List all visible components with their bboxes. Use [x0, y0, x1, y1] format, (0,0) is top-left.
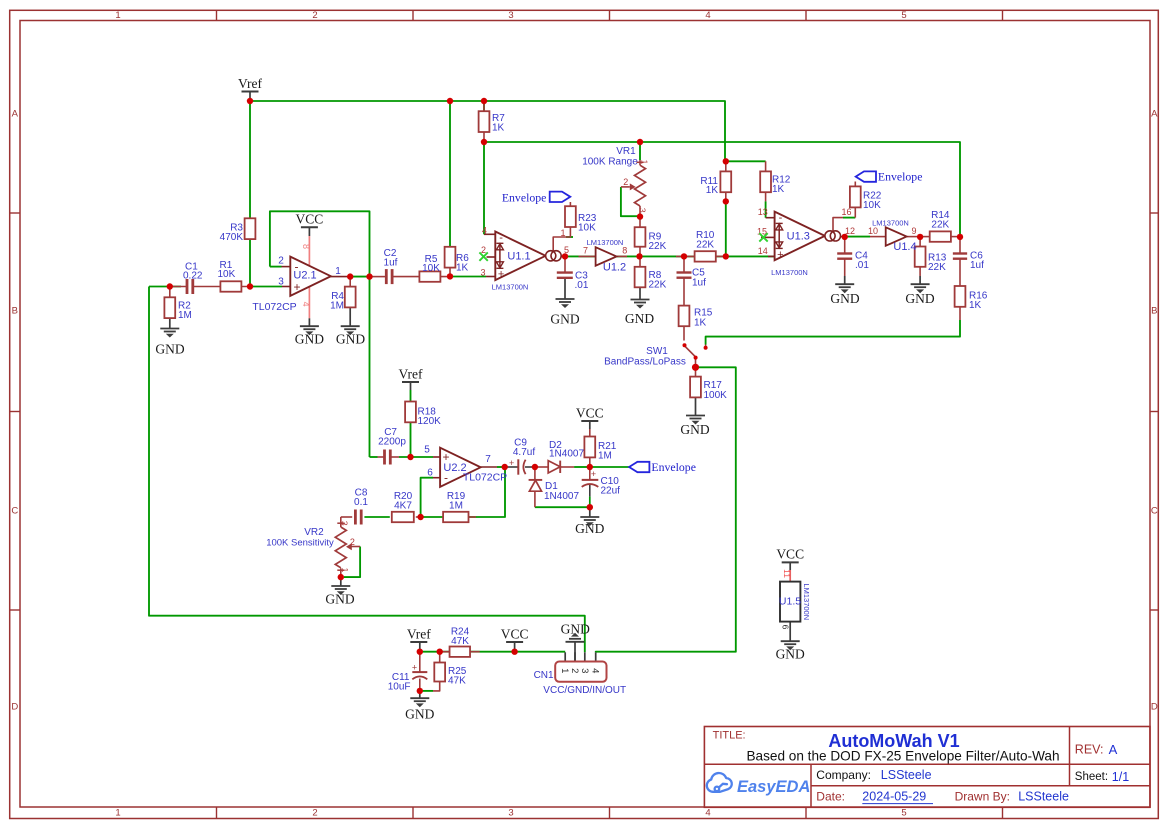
svg-text:Vref: Vref [399, 366, 423, 381]
svg-text:10K: 10K [422, 263, 440, 274]
svg-text:9: 9 [911, 226, 916, 236]
svg-text:2: 2 [481, 245, 486, 255]
svg-text:22K: 22K [696, 239, 714, 250]
svg-text:22K: 22K [928, 262, 946, 273]
svg-text:VCC: VCC [776, 547, 804, 562]
svg-text:1: 1 [335, 266, 341, 277]
svg-text:GND: GND [830, 291, 859, 306]
svg-text:5: 5 [424, 445, 430, 456]
svg-text:10: 10 [868, 226, 878, 236]
svg-text:2: 2 [278, 256, 284, 267]
svg-text:8: 8 [301, 244, 311, 249]
svg-text:GND: GND [295, 332, 324, 347]
svg-text:3: 3 [508, 10, 513, 21]
svg-text:GND: GND [680, 422, 709, 437]
svg-text:22K: 22K [649, 280, 667, 291]
svg-text:2: 2 [312, 10, 317, 21]
svg-text:CN1: CN1 [534, 670, 554, 681]
svg-text:2: 2 [569, 668, 580, 673]
svg-text:470K: 470K [220, 232, 244, 243]
svg-text:7: 7 [485, 454, 491, 465]
svg-text:Based on the DOD FX-25 Envelop: Based on the DOD FX-25 Envelope Filter/A… [746, 748, 1059, 763]
svg-text:5: 5 [901, 10, 906, 21]
svg-text:GND: GND [776, 647, 805, 662]
svg-text:1: 1 [115, 10, 120, 21]
svg-text:10K: 10K [218, 269, 236, 280]
svg-text:VCC/GND/IN/OUT: VCC/GND/IN/OUT [543, 685, 626, 696]
svg-text:GND: GND [905, 291, 934, 306]
svg-text:3: 3 [579, 668, 590, 673]
svg-text:4: 4 [705, 10, 710, 21]
svg-text:3: 3 [278, 277, 284, 288]
svg-text:U1.1: U1.1 [507, 251, 530, 263]
svg-text:GND: GND [405, 706, 434, 721]
svg-text:A: A [1109, 742, 1118, 757]
svg-text:Envelope: Envelope [651, 460, 696, 474]
svg-text:100K: 100K [704, 390, 728, 401]
svg-text:4K7: 4K7 [394, 500, 412, 511]
svg-text:100K Sensitivity: 100K Sensitivity [266, 538, 334, 549]
svg-text:VCC: VCC [296, 212, 324, 227]
svg-text:8: 8 [622, 245, 627, 255]
svg-text:BandPass/LoPass: BandPass/LoPass [604, 356, 686, 367]
svg-text:VR1: VR1 [616, 146, 636, 157]
svg-text:TL072CP: TL072CP [463, 471, 507, 483]
svg-text:EasyEDA: EasyEDA [737, 778, 810, 796]
svg-text:13: 13 [758, 207, 768, 217]
svg-text:VCC: VCC [501, 626, 529, 641]
svg-text:LM13700N: LM13700N [587, 238, 624, 247]
svg-text:B: B [1151, 306, 1157, 317]
svg-text:100K Range: 100K Range [582, 157, 638, 168]
svg-text:3: 3 [480, 267, 485, 277]
svg-text:+: + [293, 280, 300, 294]
svg-text:4: 4 [301, 302, 311, 307]
svg-text:REV:: REV: [1075, 742, 1104, 756]
svg-text:2024-05-29: 2024-05-29 [862, 790, 926, 804]
svg-text:SW1: SW1 [646, 346, 668, 357]
svg-text:TITLE:: TITLE: [713, 729, 746, 741]
svg-text:1N4007: 1N4007 [544, 491, 579, 502]
svg-text:1K: 1K [694, 317, 707, 328]
svg-text:10K: 10K [863, 200, 881, 211]
svg-text:GND: GND [155, 341, 184, 356]
svg-text:U1.5: U1.5 [779, 596, 801, 608]
svg-text:14: 14 [758, 246, 768, 256]
svg-text:3: 3 [340, 521, 350, 526]
svg-text:3: 3 [508, 807, 513, 818]
svg-text:D: D [11, 702, 18, 713]
svg-text:Vref: Vref [238, 76, 262, 91]
svg-text:-: - [499, 232, 503, 244]
svg-text:-: - [295, 259, 299, 273]
svg-text:3: 3 [638, 208, 648, 213]
svg-text:2: 2 [350, 537, 355, 547]
svg-text:1: 1 [559, 668, 570, 673]
svg-text:1M: 1M [598, 451, 612, 462]
svg-text:16: 16 [841, 207, 851, 217]
svg-text:U1.2: U1.2 [603, 261, 626, 273]
svg-text:0.1: 0.1 [354, 497, 368, 508]
svg-text:10uF: 10uF [388, 682, 411, 693]
svg-text:6: 6 [780, 625, 790, 630]
svg-text:+: + [442, 450, 449, 464]
svg-text:+: + [591, 469, 596, 479]
svg-text:0.22: 0.22 [183, 270, 203, 281]
svg-text:1uf: 1uf [384, 257, 398, 268]
svg-text:1/1: 1/1 [1112, 770, 1129, 784]
svg-text:1: 1 [560, 228, 565, 238]
svg-text:-: - [444, 470, 448, 484]
svg-text:.01: .01 [855, 260, 869, 271]
svg-text:.01: .01 [575, 280, 589, 291]
svg-text:22uf: 22uf [601, 486, 621, 497]
svg-text:2200p: 2200p [378, 437, 406, 448]
svg-text:GND: GND [625, 311, 654, 326]
svg-text:LSSteele: LSSteele [881, 768, 932, 782]
svg-text:4: 4 [705, 807, 710, 818]
svg-text:Envelope: Envelope [502, 190, 547, 204]
svg-text:1M: 1M [449, 500, 463, 511]
svg-text:7: 7 [583, 245, 588, 255]
svg-text:GND: GND [550, 312, 579, 327]
svg-text:120K: 120K [418, 416, 442, 427]
svg-text:GND: GND [336, 332, 365, 347]
svg-text:1uf: 1uf [970, 260, 984, 271]
svg-text:+: + [777, 249, 783, 261]
svg-text:D: D [1151, 702, 1158, 713]
svg-text:22K: 22K [931, 220, 949, 231]
svg-text:VR2: VR2 [304, 527, 324, 538]
svg-text:1: 1 [115, 807, 120, 818]
svg-text:C: C [1151, 506, 1158, 517]
svg-text:2: 2 [623, 177, 628, 187]
svg-text:Envelope: Envelope [878, 170, 923, 184]
svg-text:+: + [498, 269, 504, 281]
svg-text:1N4007: 1N4007 [549, 448, 584, 459]
svg-text:Vref: Vref [407, 626, 431, 641]
svg-text:4.7uf: 4.7uf [513, 447, 535, 458]
svg-text:1M: 1M [330, 300, 344, 311]
svg-text:1K: 1K [706, 185, 719, 196]
svg-text:U1.3: U1.3 [787, 231, 810, 243]
svg-text:TL072CP: TL072CP [252, 301, 296, 313]
svg-text:2: 2 [312, 807, 317, 818]
svg-text:A: A [12, 109, 19, 120]
svg-text:-: - [779, 212, 783, 224]
svg-text:5: 5 [901, 807, 906, 818]
svg-text:1K: 1K [456, 262, 469, 273]
svg-text:22K: 22K [649, 241, 667, 252]
svg-text:Drawn By:: Drawn By: [955, 790, 1010, 804]
svg-text:1uf: 1uf [692, 277, 706, 288]
svg-text:4: 4 [590, 668, 601, 673]
svg-text:U1.4: U1.4 [893, 241, 916, 253]
svg-text:1K: 1K [969, 300, 982, 311]
svg-text:A: A [1151, 109, 1158, 120]
svg-text:Sheet:: Sheet: [1075, 771, 1108, 783]
svg-text:GND: GND [325, 592, 354, 607]
svg-text:11: 11 [782, 569, 792, 578]
svg-text:6: 6 [427, 467, 433, 478]
svg-text:1K: 1K [772, 184, 785, 195]
svg-text:1M: 1M [178, 310, 192, 321]
svg-text:Date:: Date: [816, 790, 845, 804]
svg-text:LM13700N: LM13700N [771, 268, 808, 277]
svg-text:1K: 1K [492, 123, 505, 134]
svg-text:1: 1 [640, 160, 650, 165]
svg-text:4: 4 [482, 226, 487, 236]
svg-text:Company:: Company: [816, 768, 871, 782]
svg-text:LM13700N: LM13700N [492, 283, 529, 292]
svg-text:VCC: VCC [576, 405, 604, 420]
svg-text:LM13700N: LM13700N [802, 583, 811, 620]
svg-text:47K: 47K [451, 636, 469, 647]
svg-text:C: C [11, 506, 18, 517]
svg-text:47K: 47K [448, 676, 466, 687]
svg-text:LSSteele: LSSteele [1018, 790, 1069, 804]
svg-text:10K: 10K [578, 223, 596, 234]
svg-text:GND: GND [561, 622, 590, 637]
svg-text:+: + [412, 663, 417, 673]
svg-text:B: B [12, 306, 18, 317]
svg-text:GND: GND [575, 521, 604, 536]
svg-text:1: 1 [340, 568, 350, 573]
svg-text:+: + [509, 458, 514, 468]
